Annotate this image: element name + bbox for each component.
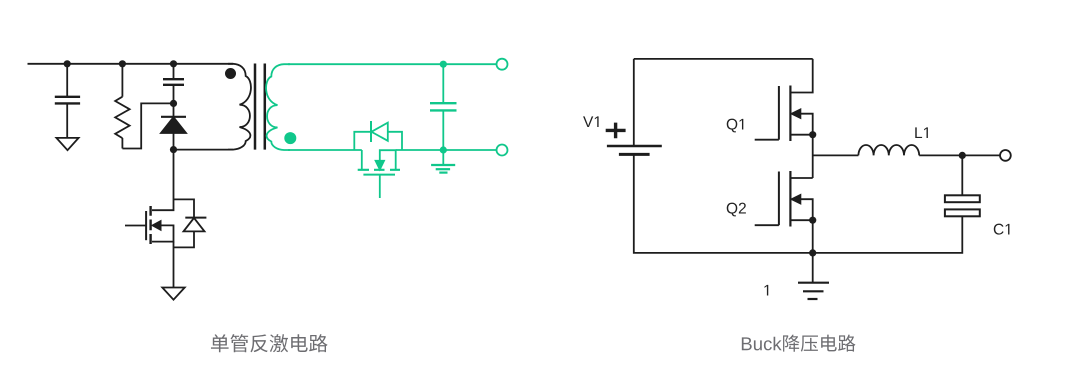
- label C1: [994, 224, 1004, 235]
- body diode triangle (open): [371, 123, 387, 141]
- node dot: Q2 source/body: [809, 217, 816, 224]
- transistor Q2 arrowhead: [792, 195, 801, 203]
- capacitor Cout plates: [430, 103, 457, 110]
- transistor Q1 gate bar: [778, 86, 780, 140]
- wire: flyback bottom primary rail: [174, 149, 234, 151]
- body diode triangle (open): [184, 218, 205, 232]
- transformer secondary winding: [266, 64, 290, 150]
- sync MOSFET gate bar: [363, 174, 395, 176]
- sync MOSFET channel bar (3 segments): [358, 169, 400, 171]
- node dot: rail/R: [119, 60, 126, 67]
- node dot: Q1 source/body: [809, 131, 816, 138]
- node dot: rail/Csn: [170, 60, 177, 67]
- wire: battery top lead: [633, 59, 635, 146]
- MOSFET Q arrowhead: [153, 221, 161, 230]
- caption: left circuit title (单管反激电路): [211, 334, 328, 352]
- ground bars: [798, 282, 829, 284]
- node dot: rail/Cin: [64, 60, 71, 67]
- battery V1 short plate: [619, 153, 650, 156]
- node dot: bottom primary: [170, 146, 177, 153]
- wire: resistor bottom L-path to snubber mid node: [122, 103, 173, 148]
- sync MOSFET gate lead: [379, 175, 381, 198]
- node dot: secondary bottom/Cout: [440, 146, 447, 153]
- transformer primary polarity dot: [225, 68, 236, 79]
- wire: phase to L1: [813, 154, 859, 156]
- transistor Q2 arrow line + source: [790, 199, 812, 220]
- label 1 (ground net): [764, 285, 768, 296]
- transistor Q2 gate bar: [778, 172, 780, 226]
- MOSFET Q gate bar: [145, 211, 147, 240]
- wire: secondary bottom rail left: [288, 149, 362, 151]
- sync MOSFET drain lead: [361, 150, 363, 170]
- transformer secondary polarity dot: [284, 132, 296, 144]
- wire: battery bottom lead + bottom rail: [634, 154, 813, 253]
- node dot: Csn/Dsn mid: [170, 100, 177, 107]
- transistor Q1 gate lead: [755, 139, 779, 141]
- wire: buck top rail: [634, 58, 813, 60]
- capacitor Cout leads: [442, 64, 444, 150]
- transformer primary winding: [228, 64, 251, 150]
- junction dots flyback: [64, 60, 236, 153]
- ground lead: [812, 253, 814, 283]
- MOSFET Q body-diode branch: [174, 199, 195, 247]
- capacitor Csn leads: [173, 64, 175, 104]
- label L1: [915, 127, 922, 138]
- transistor Q1 drain wire: [790, 59, 812, 93]
- capacitor Cin plates: [55, 97, 80, 104]
- MOSFET Q drain wire: [152, 150, 174, 211]
- wire: phase node vertical: [812, 135, 814, 178]
- ground (open triangle) under MOSFET: [162, 288, 184, 300]
- node dot: secondary top/Cout: [440, 61, 447, 68]
- transistor Q2 drain wire: [790, 177, 812, 179]
- battery plus sign: [606, 123, 626, 139]
- MOSFET Q arrow line and source: [152, 225, 174, 241]
- node dot: output/C1: [959, 152, 966, 159]
- output terminal bottom: [497, 145, 508, 156]
- transistor Q2 gate lead: [755, 224, 779, 226]
- diode Dsn leads: [173, 103, 175, 149]
- transistor Q1 channel bar: [789, 86, 791, 142]
- caption: right circuit title (Buck降压电路): [742, 335, 856, 352]
- ground (open triangle) under Cin: [56, 138, 78, 150]
- wire: secondary bottom rail right: [396, 149, 497, 151]
- battery V1 long plate: [607, 145, 662, 148]
- node dot: ground rail: [809, 249, 816, 256]
- output terminal circle: [1000, 150, 1011, 161]
- MOSFET Q channel bar (3 segments): [149, 206, 151, 244]
- body diode cathode bar: [185, 217, 206, 219]
- capacitor C1 plate boxes: [945, 195, 980, 202]
- diode Dsn cathode bar: [161, 116, 186, 118]
- sync MOSFET source lead + arrow bend: [380, 150, 396, 169]
- MOSFET Q gate lead: [125, 225, 146, 227]
- caption word "Buck": [742, 337, 752, 350]
- label Q1: [727, 119, 738, 133]
- resistor R leads: [121, 64, 123, 149]
- wire: Q2 source to ground rail: [812, 220, 814, 253]
- output terminal top: [497, 59, 508, 70]
- capacitor Csn plates: [163, 79, 184, 85]
- wire: secondary top rail: [288, 63, 497, 65]
- wire: L1 to output: [919, 154, 1000, 156]
- transformer core lines: [255, 64, 265, 150]
- body diode branch: [354, 132, 402, 150]
- resistor R zigzag: [115, 97, 129, 138]
- wire: flyback top rail: [28, 63, 234, 65]
- MOSFET Q source down wire: [173, 242, 175, 288]
- capacitor Cin vertical leads: [66, 64, 68, 138]
- transistor Q1 arrowhead: [792, 110, 801, 118]
- transistor Q2 channel bar: [789, 171, 791, 227]
- capacitor C1 top lead: [961, 155, 963, 195]
- capacitor C1 bottom lead to rail: [813, 216, 963, 253]
- transistor Q1 arrow line + source: [790, 114, 812, 135]
- earth ground under output node: [442, 150, 444, 165]
- label V1: [583, 116, 593, 127]
- diode Dsn triangle (filled): [161, 117, 186, 133]
- sync MOSFET arrowhead (down): [376, 161, 384, 170]
- inductor L1: [858, 145, 919, 155]
- label Q2: [727, 203, 738, 217]
- body diode cathode bar: [370, 121, 372, 142]
